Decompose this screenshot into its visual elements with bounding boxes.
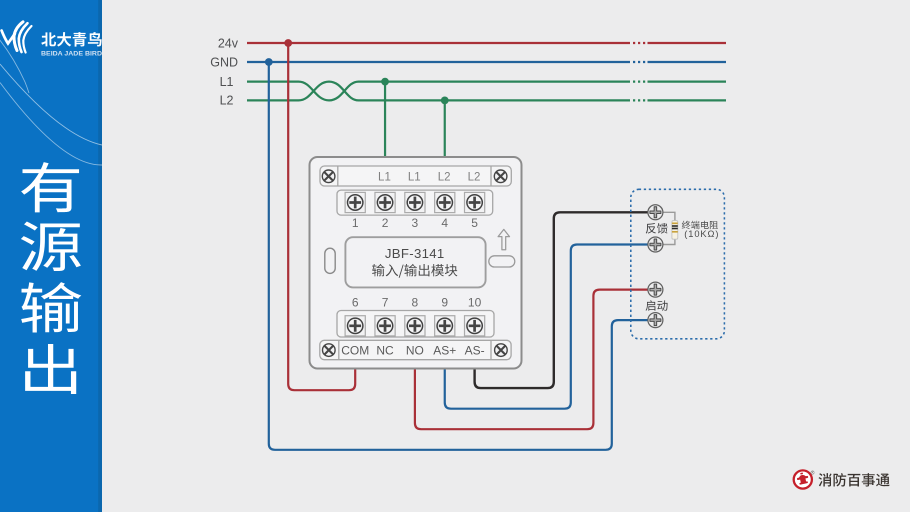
terminal 10	[465, 316, 485, 336]
svg-text:COM: COM	[341, 344, 369, 358]
svg-text:NO: NO	[406, 344, 424, 358]
sidebar panel	[0, 0, 102, 512]
controlled device dashed box	[631, 189, 725, 338]
svg-text:L1: L1	[408, 171, 421, 183]
terminal 9	[435, 316, 455, 336]
svg-text:L2: L2	[468, 171, 481, 183]
node GND junction	[265, 58, 273, 66]
terminal feedback plus	[648, 205, 663, 220]
module nameplate JBF-3141	[345, 237, 485, 287]
terminal labels L1 L1 L2 L2	[378, 171, 480, 183]
wire L2 drop to terminal 4	[444, 100, 446, 158]
svg-text:1: 1	[352, 216, 359, 230]
wire NO terminal 8 to start plus	[415, 290, 649, 430]
screw bottom-right	[495, 344, 508, 357]
module orientation arrow	[498, 229, 509, 249]
module bottom label strip	[320, 340, 511, 359]
terminal 2	[375, 192, 395, 212]
label 启动	[646, 300, 668, 311]
svg-text:(10KΩ): (10KΩ)	[684, 229, 719, 239]
node L1 junction	[381, 78, 389, 86]
svg-text:BEIDA JADE BIRD: BEIDA JADE BIRD	[41, 51, 102, 58]
svg-text:4: 4	[441, 216, 448, 230]
svg-text:JBF-3141: JBF-3141	[385, 246, 445, 261]
svg-text:L1: L1	[220, 75, 234, 89]
svg-text:6: 6	[352, 296, 359, 310]
terminal start minus	[648, 313, 663, 328]
wire AS+ terminal 9 to feedback minus	[445, 245, 649, 409]
svg-text:7: 7	[382, 296, 389, 310]
terminal start plus	[648, 282, 663, 297]
module top terminal block	[337, 190, 493, 215]
logo text BeiDa JadeBird	[41, 32, 102, 58]
pin numbers 6-10	[352, 296, 482, 310]
module right slot pill	[489, 256, 515, 267]
module top label strip	[320, 166, 511, 186]
svg-text:8: 8	[412, 296, 419, 310]
terminal 4	[435, 192, 455, 212]
wire L1 bus twisted pair	[247, 82, 726, 101]
svg-text:10: 10	[468, 296, 482, 310]
terminal 8	[405, 316, 425, 336]
terminal 3	[405, 192, 425, 212]
resistor R1 terminal resistor body	[672, 221, 678, 240]
wire GND to start minus	[269, 64, 649, 450]
svg-text:L2: L2	[438, 171, 451, 183]
terminal 7	[375, 316, 395, 336]
sidebar vertical title 有源输出	[21, 162, 81, 394]
wire L1 drop to terminal 2	[384, 82, 386, 158]
terminal labels COM NC NO AS+ AS-	[341, 344, 484, 358]
screw bottom-left	[323, 344, 336, 357]
svg-text:AS+: AS+	[433, 344, 456, 358]
screw top-right	[494, 170, 507, 183]
svg-text:3: 3	[412, 216, 419, 230]
label 反馈	[646, 223, 668, 234]
module left slot pill	[325, 248, 335, 273]
terminal 1	[345, 192, 365, 212]
wire 24v to COM terminal 6	[288, 45, 355, 390]
terminal 5	[465, 192, 485, 212]
resistor R1 leads	[661, 212, 675, 244]
terminal feedback minus	[648, 237, 663, 252]
svg-text:24v: 24v	[218, 36, 239, 50]
watermark logo 119	[794, 470, 890, 489]
svg-text:GND: GND	[210, 55, 238, 69]
svg-text:NC: NC	[376, 344, 394, 358]
svg-text:L2: L2	[220, 94, 234, 108]
node 24v junction	[284, 39, 292, 47]
svg-text:AS-: AS-	[465, 344, 485, 358]
wire AS- terminal 10 to feedback plus	[475, 212, 649, 388]
module bottom terminal block	[337, 311, 494, 338]
wire 24v bus	[247, 42, 726, 44]
svg-text:5: 5	[471, 216, 478, 230]
node L2 junction	[441, 97, 449, 105]
svg-text:®: ®	[811, 470, 815, 477]
wire GND bus	[247, 61, 726, 63]
screw top-left	[322, 170, 335, 183]
terminal 6	[345, 316, 365, 336]
svg-text:2: 2	[382, 216, 389, 230]
wire L2 bus twisted pair	[247, 82, 726, 101]
label 终端电阻 10K	[682, 221, 720, 239]
module U1 JBF-3141 body	[310, 157, 522, 369]
svg-text:9: 9	[441, 296, 448, 310]
pin numbers 1-5	[352, 216, 478, 230]
svg-text:L1: L1	[378, 171, 391, 183]
sidebar thin diagonal line	[0, 39, 29, 93]
logo bird icon	[2, 22, 32, 53]
